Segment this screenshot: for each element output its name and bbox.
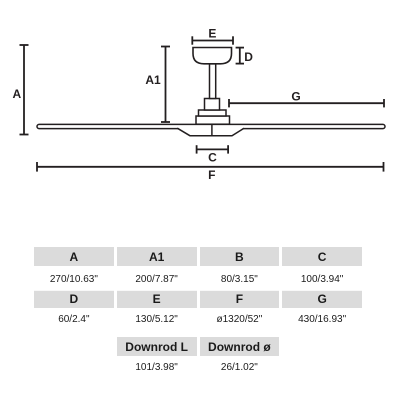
svg-text:C: C xyxy=(208,150,217,164)
label E xyxy=(208,27,216,41)
label A1 xyxy=(145,73,161,87)
fan dimension drawing xyxy=(0,0,400,236)
motor bowl fill xyxy=(177,127,245,137)
dimension table xyxy=(34,247,362,379)
motor bowl outline xyxy=(177,128,244,136)
dimension A1 xyxy=(161,47,170,123)
svg-text:E: E xyxy=(208,27,216,41)
dimension C xyxy=(197,145,229,153)
motor center line xyxy=(211,125,213,136)
svg-text:G: G xyxy=(291,89,300,103)
svg-text:D: D xyxy=(244,50,253,64)
downrod header row xyxy=(34,337,362,356)
dimension D xyxy=(236,48,244,64)
label D xyxy=(244,50,253,64)
svg-text:F: F xyxy=(208,168,215,182)
canopy xyxy=(193,48,232,64)
dimension F xyxy=(37,162,384,172)
downrod xyxy=(210,64,216,99)
downrod coupler box xyxy=(205,99,220,111)
label C xyxy=(208,150,217,164)
label A xyxy=(12,87,21,101)
dimension E xyxy=(192,36,233,44)
header row D E F G xyxy=(34,289,362,308)
value row 2 xyxy=(34,308,362,331)
label F xyxy=(208,168,215,182)
value row 1 xyxy=(34,268,362,291)
svg-text:A: A xyxy=(12,87,21,101)
dimension A xyxy=(20,45,29,135)
blade span xyxy=(37,124,385,128)
svg-text:A1: A1 xyxy=(145,73,161,87)
downrod value row xyxy=(34,356,362,379)
label G xyxy=(291,89,300,103)
motor housing middle box xyxy=(199,110,227,116)
motor housing bottom box xyxy=(196,116,230,124)
dimension G xyxy=(229,99,384,107)
header row A A1 B C xyxy=(34,247,362,266)
